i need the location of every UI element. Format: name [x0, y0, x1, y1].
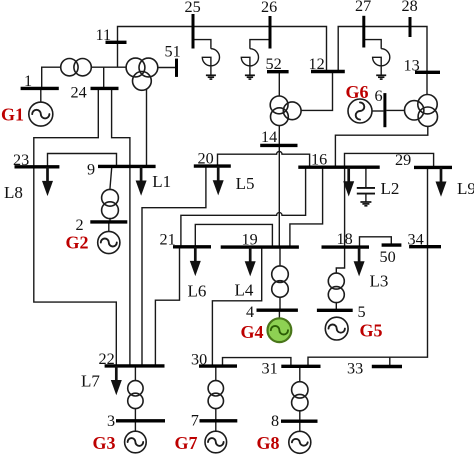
svg-text:24: 24: [71, 84, 87, 102]
svg-text:21: 21: [160, 231, 176, 249]
svg-text:16: 16: [311, 151, 327, 169]
wire bus 22 to transformer T22-3: [134, 366, 136, 381]
bus 13: [415, 71, 440, 74]
wire transformer T31-8 to bus 8: [299, 411, 301, 422]
wire T51 tertiary down to bus 9: [146, 89, 148, 166]
svg-text:3: 3: [107, 412, 115, 430]
wire bus 1 to generator G1: [40, 88, 42, 102]
wire bus 29 down through bus 34 to bus 31/33 tie: [308, 167, 428, 366]
svg-text:G4: G4: [241, 322, 264, 342]
wire bus 21 to bus 22: [155, 247, 179, 366]
bus 14: [260, 144, 297, 147]
svg-text:G7: G7: [175, 433, 198, 453]
svg-text:25: 25: [185, 0, 201, 16]
transformer T31-8 (bus31-bus8): [292, 382, 308, 411]
bus 28: [409, 17, 412, 37]
wire bus 12 riser to bus27/28 feeder and drop to bus 13: [338, 27, 427, 73]
wire branch down to bus 24: [103, 67, 105, 88]
ground below capacitor C16: [360, 202, 371, 206]
bus 23: [15, 165, 60, 168]
wire bus11 riser to top bus25/26 feeder and drop to bus 12: [118, 27, 327, 72]
wire bus 4 to generator G4: [278, 310, 280, 318]
svg-text:L5: L5: [236, 174, 255, 193]
bus 19: [221, 245, 299, 248]
svg-text:L2: L2: [381, 179, 400, 198]
wire bus 19 to transformer T19-4: [279, 247, 281, 266]
svg-text:1: 1: [24, 72, 32, 90]
bus 51: [175, 59, 178, 77]
generator G8: [289, 431, 311, 453]
wire T52 secondary to bus 12: [301, 72, 333, 111]
wire bus 26 to shunt reactor X26: [250, 40, 270, 49]
transformer T30-7 (bus30-bus7): [208, 381, 223, 409]
svg-text:33: 33: [347, 360, 363, 378]
wire bus 18 to bus 50 bridge: [360, 237, 392, 247]
svg-text:23: 23: [13, 151, 29, 169]
svg-text:12: 12: [309, 55, 325, 73]
wire bus 6 to T13 primary: [386, 109, 404, 111]
svg-text:11: 11: [96, 26, 112, 44]
svg-text:8: 8: [271, 412, 279, 430]
load L6 arrow at bus 21: [190, 247, 201, 276]
bus 31: [281, 365, 320, 368]
load L9 arrow at bus 29: [436, 167, 447, 196]
bus 50: [382, 243, 402, 246]
svg-text:13: 13: [404, 57, 420, 75]
svg-text:7: 7: [191, 412, 199, 430]
wire transformer T18-5 to bus 5: [335, 302, 337, 310]
bus 6: [383, 93, 386, 127]
wire bus1 riser to transformer T1: [42, 67, 61, 88]
svg-text:L1: L1: [152, 172, 171, 191]
generator G1: [29, 102, 53, 126]
bus 30: [199, 364, 237, 367]
svg-text:9: 9: [87, 161, 95, 179]
bus 7: [200, 419, 238, 422]
svg-text:19: 19: [242, 231, 258, 249]
wire bus 16 shunt capacitor leg: [365, 167, 367, 187]
svg-text:26: 26: [261, 0, 277, 16]
svg-text:G8: G8: [257, 433, 280, 453]
svg-text:L7: L7: [81, 372, 100, 391]
wire bus 20 to bus 22: [142, 166, 206, 366]
wire bus 27 to shunt reactor X27: [364, 40, 381, 49]
wire T52 tertiary down to bus 14: [278, 126, 280, 146]
wire bus 19 to bus 30: [212, 247, 261, 366]
svg-text:L9: L9: [457, 179, 474, 198]
wire bus 21 to bus 19: [195, 224, 272, 247]
wire transformer T22-3 to bus 3: [134, 409, 136, 421]
bus 4: [257, 309, 298, 312]
wire bus 20 to bus 16 with crossover hop: [218, 151, 310, 167]
generator G6: [348, 99, 372, 123]
three-winding transformer T51 (bus11-bus51-bus9): [126, 58, 158, 90]
svg-text:5: 5: [358, 303, 366, 321]
load L5 arrow at bus 20: [213, 166, 224, 195]
svg-text:G2: G2: [66, 233, 89, 253]
wire bus 16 to bus 21 with crossover hop: [181, 167, 306, 247]
wire stub down to bus 33: [389, 357, 391, 366]
bus 33: [372, 365, 402, 368]
svg-text:18: 18: [337, 230, 353, 248]
svg-text:30: 30: [191, 351, 207, 369]
bus 9: [98, 165, 156, 168]
wire bus 30 to bus 31 bridge: [223, 358, 291, 367]
bus 20: [194, 164, 231, 167]
load L2 arrow at bus 16: [343, 167, 354, 196]
wire bus 16 to bus 19: [290, 167, 323, 247]
wire bus 16 down to bus 18: [344, 167, 346, 247]
wire bus 14 down to bus 19: [278, 145, 280, 247]
wire transformer T9-2 to bus 2: [109, 219, 111, 222]
svg-text:34: 34: [408, 231, 424, 249]
wire bus 16 to bus 29: [345, 153, 434, 167]
wire bus 24 right drop through bus 9 to bus 22: [112, 88, 130, 366]
generator G7: [205, 431, 227, 453]
svg-text:6: 6: [375, 87, 383, 105]
bus 2: [90, 220, 127, 223]
svg-text:31: 31: [262, 360, 278, 378]
wire bus 30 to transformer T30-7: [215, 366, 217, 381]
transformer T1 (bus1-bus11): [61, 58, 92, 75]
transformer T18-5 (bus18-bus5): [328, 273, 344, 303]
bus 29: [414, 166, 452, 169]
load L3 arrow at bus 18: [354, 247, 365, 276]
svg-text:29: 29: [395, 151, 411, 169]
shunt reactor X25 with ground: [202, 49, 219, 79]
load L8 arrow at bus 23: [42, 167, 53, 196]
bus 24: [91, 87, 119, 90]
shunt reactor X26 with ground: [241, 49, 258, 79]
svg-text:50: 50: [380, 248, 396, 266]
wire bus 9 to transformer T9-2: [110, 166, 112, 189]
svg-text:20: 20: [198, 150, 214, 168]
generator G5: [325, 317, 348, 340]
wire G6 to bus 6: [372, 110, 383, 112]
bus 25: [192, 14, 195, 49]
bus 26: [269, 16, 272, 49]
svg-text:G1: G1: [1, 105, 24, 125]
generator G3: [125, 431, 147, 453]
three-winding transformer T13 (bus13-bus6-bus16): [405, 95, 438, 127]
bus 22: [105, 364, 165, 367]
svg-text:L6: L6: [188, 282, 207, 301]
bus 8: [281, 420, 318, 423]
three-winding transformer T52 (bus52-bus12-bus14): [270, 96, 301, 126]
svg-text:52: 52: [266, 55, 282, 73]
bus 3: [116, 419, 165, 422]
wire T13 tertiary to bus 16: [335, 126, 427, 167]
load L4 arrow at bus 19: [245, 247, 256, 276]
bus 18: [322, 245, 370, 248]
bus 1: [21, 87, 59, 90]
wire transformer T19-4 to bus 4: [279, 297, 281, 310]
shunt reactor X27 with ground: [373, 49, 390, 79]
load L1 arrow at bus 9: [136, 166, 147, 195]
bus 27: [362, 16, 365, 48]
bus 5: [317, 309, 353, 312]
bus 16: [298, 165, 379, 168]
wire T1 right winding to node above bus 24: [91, 66, 126, 68]
generator G2: [98, 231, 120, 253]
bus 11: [106, 41, 127, 44]
transformer T19-4 (bus19-bus4): [272, 266, 289, 297]
transformer T22-3 (bus22-bus3): [128, 381, 143, 409]
transformer T9-2 (bus9-bus2): [102, 189, 119, 218]
svg-text:4: 4: [246, 303, 254, 321]
wire bus 8 to generator G8: [299, 421, 301, 431]
svg-text:L8: L8: [4, 183, 23, 202]
wire bus 18 to transformer T18-5: [336, 247, 344, 273]
bus 34: [409, 245, 441, 248]
wire bus 9 to bus 23: [48, 154, 117, 167]
load L7 arrow at bus 22: [111, 366, 122, 395]
wire bus 31 to transformer T31-8: [299, 366, 301, 382]
svg-text:G6: G6: [346, 82, 369, 102]
wire transformer T30-7 to bus 7: [215, 409, 217, 421]
wire bus 3 to generator G3: [134, 421, 136, 432]
bus 52: [267, 70, 289, 73]
svg-text:28: 28: [402, 0, 418, 15]
svg-text:L4: L4: [235, 281, 254, 300]
svg-text:L3: L3: [370, 272, 389, 291]
svg-text:G3: G3: [93, 433, 116, 453]
capacitor C16 (L2 compensation): [357, 188, 375, 202]
wire 3-winding transformer T51 right winding to bus 51: [158, 67, 175, 69]
wire bus 24 left drop via far-left run to bus 22: [34, 88, 117, 366]
svg-text:G5: G5: [360, 321, 383, 341]
bus 12: [311, 70, 345, 73]
bus 21: [173, 245, 211, 248]
svg-text:14: 14: [261, 128, 277, 146]
svg-text:51: 51: [165, 43, 181, 61]
generator G4 (highlighted green): [268, 318, 292, 342]
wire bus 7 to generator G7: [215, 421, 217, 432]
wire bus 25 to shunt reactor X25: [193, 40, 211, 49]
wire bus 52 down to 3-winding transformer T52: [278, 72, 280, 96]
svg-text:22: 22: [99, 350, 115, 368]
svg-text:27: 27: [355, 0, 371, 15]
wire bus 13 down to 3-winding transformer T13: [426, 72, 428, 94]
wire bus 2 to generator G2: [108, 222, 110, 232]
svg-text:2: 2: [76, 216, 84, 234]
